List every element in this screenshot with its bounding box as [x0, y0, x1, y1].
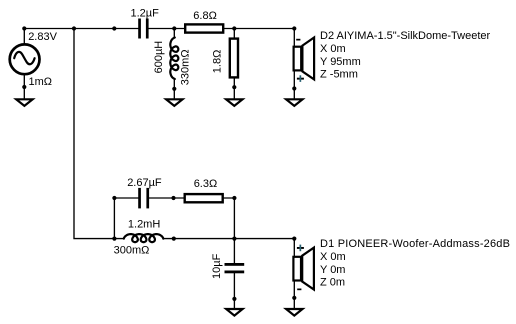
- label D1 X: [320, 251, 346, 263]
- svg-text:1.2µF: 1.2µF: [131, 8, 160, 20]
- label 6.8ohm: [193, 10, 217, 22]
- resistor R 1.8ohm vertical: [230, 39, 238, 78]
- label minus tweeter: [296, 39, 300, 41]
- label minus woofer: [297, 289, 301, 291]
- svg-text:600µH: 600µH: [153, 41, 165, 74]
- svg-text:D1 PIONEER-Woofer-Addmass-26dB: D1 PIONEER-Woofer-Addmass-26dB: [320, 238, 510, 250]
- ground below source: [16, 99, 32, 106]
- wire tweeter branch vertical: [293, 29, 295, 99]
- ground below tweeter: [286, 99, 302, 106]
- label 1.2uF: [131, 8, 160, 20]
- label 10uF (rotated): [211, 253, 223, 279]
- junction dot source top corner: [22, 26, 26, 30]
- svg-text:Y 0m: Y 0m: [320, 264, 345, 276]
- svg-text:300mΩ: 300mΩ: [114, 245, 150, 257]
- label 6.3ohm: [194, 178, 218, 190]
- inductor L 1.2mH coil: [124, 234, 164, 242]
- ground below 600uH: [166, 99, 182, 106]
- junction dot tweeter bottom: [292, 86, 296, 90]
- junction dot tweeter top node: [292, 26, 296, 30]
- label D1 Z: [320, 277, 345, 289]
- svg-text:1mΩ: 1mΩ: [29, 76, 53, 88]
- capacitor C 1.2uF plates: [138, 19, 148, 39]
- label 1.2mH: [128, 219, 160, 231]
- junction dot 10uF top node: [232, 237, 236, 241]
- voltage source circle with sine: [10, 44, 40, 74]
- label 1mOhm: [29, 76, 53, 88]
- svg-text:330mΩ: 330mΩ: [179, 49, 191, 85]
- svg-text:10µF: 10µF: [211, 253, 223, 279]
- wire woofer branch vertical: [293, 239, 295, 309]
- label 1.8ohm (rotated): [212, 50, 224, 74]
- ground below 10uF: [226, 309, 242, 316]
- label 330mOhm (rotated): [179, 49, 191, 85]
- label 300mOhm: [114, 245, 150, 257]
- svg-text:Y 95mm: Y 95mm: [320, 56, 361, 68]
- svg-text:1.2mH: 1.2mH: [128, 219, 160, 231]
- label plus tweeter: [297, 75, 304, 82]
- svg-text:Z -5mm: Z -5mm: [320, 69, 358, 81]
- wire 600uH inductor stubs: [173, 29, 175, 99]
- junction dot 10uF bottom: [232, 297, 236, 301]
- label D1 woofer line 1: [320, 238, 510, 250]
- junction dot 1.8ohm bottom: [232, 85, 236, 89]
- label D2 X: [320, 43, 346, 55]
- label plus woofer: [297, 245, 304, 252]
- junction dot woofer top node: [292, 237, 296, 241]
- svg-text:6.8Ω: 6.8Ω: [193, 10, 217, 22]
- ground below woofer: [286, 309, 302, 316]
- label D2 tweeter line 1: [320, 30, 491, 42]
- junction dot 6.3ohm right node: [232, 196, 236, 200]
- wire upper woofer branch (cap+resistor series): [114, 198, 234, 239]
- svg-text:2.67µF: 2.67µF: [127, 177, 162, 189]
- junction dot woofer branch left lower: [112, 237, 116, 241]
- wire 10uF branch vertical: [233, 239, 235, 309]
- wire source bottom lead: [23, 74, 25, 98]
- junction dot woofer bottom: [292, 296, 296, 300]
- junction dot cap/inductor node: [172, 26, 176, 30]
- wire top horizontal from source to tweeter: [24, 29, 294, 45]
- ground below 1.8ohm: [226, 99, 242, 106]
- inductor L 600uH coil: [170, 38, 178, 80]
- resistor R 6.8ohm: [185, 24, 223, 32]
- capacitor C 10uF plates: [225, 263, 245, 273]
- svg-text:Z 0m: Z 0m: [320, 277, 345, 289]
- junction dot source bottom: [22, 85, 26, 89]
- junction dot resistor right node: [232, 26, 236, 30]
- junction dot woofer branch left upper: [112, 196, 116, 200]
- label 2.83V: [28, 31, 57, 43]
- label 600uH (rotated): [153, 41, 165, 74]
- junction dot between cap and 6.3ohm: [171, 196, 175, 200]
- label D1 Y: [320, 264, 345, 276]
- label D2 Y: [320, 56, 361, 68]
- speaker D2 tweeter symbol: [294, 38, 315, 80]
- junction dot trunk on top wire: [72, 26, 76, 30]
- wire trunk vertical and woofer feed: [74, 29, 294, 239]
- capacitor C 2.67uF plates: [138, 188, 149, 209]
- label 2.67uF: [127, 177, 162, 189]
- junction dot mid top wire: [112, 26, 116, 30]
- junction dot inductor bottom: [172, 87, 176, 91]
- wire 1.8ohm resistor branch: [233, 29, 235, 99]
- svg-text:6.3Ω: 6.3Ω: [194, 178, 218, 190]
- speaker D1 woofer symbol: [293, 248, 314, 290]
- svg-text:D2 AIYIMA-1.5"-SilkDome-Tweete: D2 AIYIMA-1.5"-SilkDome-Tweeter: [320, 30, 491, 42]
- svg-text:1.8Ω: 1.8Ω: [212, 50, 224, 74]
- junction dot inductor right: [172, 237, 176, 241]
- svg-text:2.83V: 2.83V: [28, 31, 57, 43]
- resistor R 6.3ohm: [185, 194, 223, 202]
- svg-text:X 0m: X 0m: [320, 251, 346, 263]
- svg-text:X 0m: X 0m: [320, 43, 346, 55]
- label D2 Z: [320, 69, 358, 81]
